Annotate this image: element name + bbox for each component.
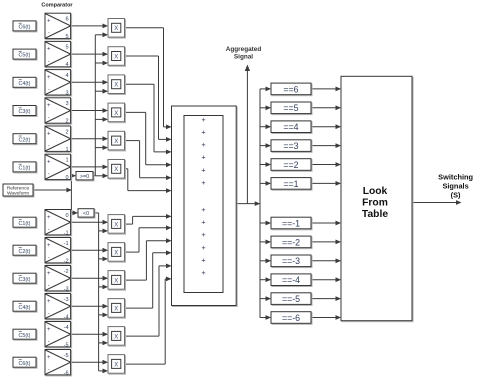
svg-text:==-6: ==-6	[282, 313, 300, 323]
svg-text:-: -	[48, 59, 50, 65]
svg-text:5: 5	[65, 34, 68, 40]
svg-text:-5: -5	[64, 342, 69, 348]
svg-text:-: -	[48, 227, 50, 233]
svg-text:-: -	[48, 87, 50, 93]
svg-text:X: X	[114, 139, 118, 145]
svg-text:3: 3	[65, 90, 68, 96]
svg-text:-1: -1	[64, 230, 69, 236]
svg-text:==1: ==1	[283, 179, 298, 189]
svg-text:C6(t): C6(t)	[19, 25, 31, 31]
svg-text:==5: ==5	[283, 103, 298, 113]
svg-text:-: -	[48, 115, 50, 121]
svg-text:<0: <0	[83, 211, 89, 217]
svg-text:-5: -5	[64, 353, 69, 359]
svg-text:+: +	[201, 115, 205, 124]
svg-text:-: -	[48, 339, 50, 345]
svg-text:==-3: ==-3	[282, 256, 300, 266]
svg-text:+: +	[47, 271, 51, 277]
svg-text:+: +	[201, 255, 205, 264]
svg-text:1: 1	[65, 158, 68, 164]
svg-text:C5(t): C5(t)	[19, 333, 31, 339]
svg-text:From: From	[362, 198, 388, 209]
svg-text:Switching: Switching	[438, 172, 473, 181]
svg-text:C2(t): C2(t)	[19, 137, 31, 143]
svg-text:+: +	[47, 243, 51, 249]
svg-text:-: -	[48, 255, 50, 261]
svg-text:+: +	[47, 131, 51, 137]
svg-text:-1: -1	[64, 241, 69, 247]
svg-text:Signals: Signals	[442, 182, 468, 191]
svg-text:(S): (S)	[451, 190, 461, 199]
svg-text:+: +	[201, 165, 205, 174]
svg-text:4: 4	[65, 62, 68, 68]
svg-text:-3: -3	[64, 286, 69, 292]
svg-text:+: +	[47, 355, 51, 361]
svg-text:X: X	[114, 362, 118, 368]
svg-text:X: X	[114, 83, 118, 89]
svg-text:5: 5	[65, 45, 68, 51]
svg-text:C5(t): C5(t)	[19, 53, 31, 59]
svg-text:-4: -4	[64, 325, 69, 331]
svg-text:2: 2	[65, 129, 68, 135]
svg-text:3: 3	[65, 101, 68, 107]
svg-text:==-5: ==-5	[282, 294, 300, 304]
svg-text:Comparator: Comparator	[41, 3, 73, 9]
svg-text:X: X	[114, 111, 118, 117]
svg-text:==2: ==2	[283, 160, 298, 170]
svg-text:==4: ==4	[283, 122, 298, 132]
svg-text:X: X	[114, 250, 118, 256]
svg-text:X: X	[114, 54, 118, 60]
svg-text:==-1: ==-1	[282, 218, 300, 228]
svg-text:6: 6	[65, 17, 68, 23]
svg-text:+: +	[47, 299, 51, 305]
svg-text:X: X	[114, 222, 118, 228]
svg-text:0: 0	[65, 213, 68, 219]
svg-text:+: +	[47, 47, 51, 53]
svg-text:C4(t): C4(t)	[19, 305, 31, 311]
svg-text:0: 0	[65, 175, 68, 181]
svg-text:X: X	[114, 278, 118, 284]
svg-text:C3(t): C3(t)	[19, 109, 31, 115]
svg-text:+: +	[47, 75, 51, 81]
svg-text:Signal: Signal	[234, 54, 253, 61]
svg-text:==3: ==3	[283, 141, 298, 151]
svg-text:X: X	[114, 306, 118, 312]
svg-text:X: X	[114, 334, 118, 340]
svg-text:-: -	[48, 283, 50, 289]
svg-text:C1(t): C1(t)	[19, 221, 31, 227]
svg-text:-: -	[48, 172, 50, 178]
svg-text:X: X	[114, 167, 118, 173]
svg-text:1: 1	[65, 147, 68, 153]
svg-text:+: +	[47, 160, 51, 166]
svg-text:+: +	[201, 128, 205, 137]
svg-text:4: 4	[65, 73, 68, 79]
svg-text:-2: -2	[64, 269, 69, 275]
svg-text:+: +	[47, 19, 51, 25]
svg-text:+: +	[201, 218, 205, 227]
svg-text:+: +	[201, 205, 205, 214]
svg-text:==6: ==6	[283, 84, 298, 94]
svg-text:>=0: >=0	[80, 174, 89, 180]
svg-text:+: +	[201, 268, 205, 277]
svg-text:+: +	[201, 178, 205, 187]
svg-text:-6: -6	[64, 370, 69, 376]
svg-text:Waveform: Waveform	[7, 191, 29, 197]
svg-text:C4(t): C4(t)	[19, 81, 31, 87]
svg-text:Table: Table	[362, 209, 388, 220]
svg-text:+: +	[47, 215, 51, 221]
svg-text:Look: Look	[363, 186, 388, 197]
svg-text:-: -	[48, 31, 50, 37]
svg-text:-4: -4	[64, 314, 69, 320]
svg-text:+: +	[201, 243, 205, 252]
svg-text:-: -	[48, 144, 50, 150]
svg-text:+: +	[47, 327, 51, 333]
svg-text:==-4: ==-4	[282, 275, 300, 285]
svg-text:+: +	[47, 103, 51, 109]
svg-text:C3(t): C3(t)	[19, 277, 31, 283]
svg-text:+: +	[201, 140, 205, 149]
svg-text:Reference: Reference	[7, 185, 30, 191]
svg-text:X: X	[114, 26, 118, 32]
svg-text:2: 2	[65, 119, 68, 125]
svg-text:Aggregated: Aggregated	[226, 46, 262, 53]
svg-text:-2: -2	[64, 258, 69, 264]
svg-text:+: +	[201, 153, 205, 162]
svg-text:-3: -3	[64, 297, 69, 303]
svg-text:C2(t): C2(t)	[19, 249, 31, 255]
svg-text:+: +	[201, 230, 205, 239]
svg-text:-: -	[48, 367, 50, 373]
svg-text:C6(t): C6(t)	[19, 361, 31, 367]
svg-text:-: -	[48, 311, 50, 317]
svg-text:==-2: ==-2	[282, 237, 300, 247]
svg-text:C1(t): C1(t)	[19, 166, 31, 172]
